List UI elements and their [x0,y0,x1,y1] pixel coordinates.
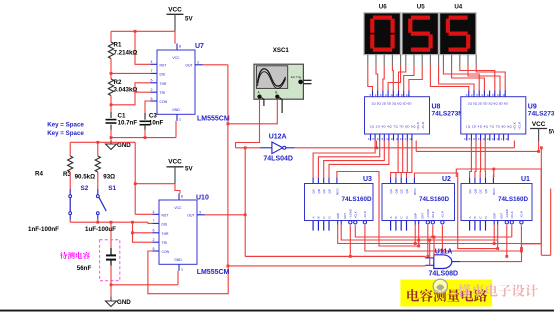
svg-text:ENP: ENP [414,213,418,219]
svg-text:74LS08D: 74LS08D [429,270,459,277]
svg-text:R4: R4 [35,170,43,177]
svg-text:U5: U5 [417,4,425,11]
svg-text:7: 7 [153,219,155,223]
svg-text:OUT: OUT [187,213,194,217]
svg-text:Ext Trig: Ext Trig [291,75,302,79]
svg-text:7.214kΩ: 7.214kΩ [114,50,138,57]
svg-text:>CLK: >CLK [354,211,358,218]
svg-text:19: 19 [496,137,500,141]
svg-text:VCC: VCC [168,158,182,165]
svg-text:56nF: 56nF [77,265,92,272]
svg-text:VCC: VCC [172,56,180,60]
svg-text:3: 3 [197,61,199,65]
svg-text:74LS04D: 74LS04D [263,155,293,162]
svg-text:TRI: TRI [162,241,168,245]
svg-text:QB: QB [473,189,477,193]
svg-text:~CLR: ~CLR [441,211,445,218]
svg-text:2: 2 [153,238,155,242]
svg-text:QA: QA [468,189,472,193]
svg-text:5: 5 [151,97,153,101]
svg-text:RST: RST [160,63,167,67]
svg-text:6: 6 [151,79,153,83]
svg-text:QB: QB [394,189,398,193]
svg-text:1Q 1D 4D 4Q 7Q 7D 8D 8Q: 1Q 1D 4D 4Q 7Q 7D 8D 8Q [466,125,513,129]
svg-text:U8: U8 [432,104,441,111]
svg-text:2Q 5Q 2D 5D 3Q 6Q 3D 6D: 2Q 5Q 2D 5D 3Q 6Q 3D 6D [372,102,413,106]
svg-text:THR: THR [160,82,168,86]
svg-text:~LOAD: ~LOAD [505,209,509,218]
svg-text:U7: U7 [195,43,204,50]
svg-text:74LS160D: 74LS160D [419,196,450,203]
svg-text:GND: GND [174,258,182,262]
svg-text:5V: 5V [549,129,554,136]
svg-text:U12A: U12A [269,133,287,140]
svg-text:U2: U2 [442,176,451,183]
svg-text:15: 15 [487,137,491,141]
svg-text:B: B [275,91,277,95]
svg-text:2Q 5Q 2D 5D 3Q 6Q 3D 6D: 2Q 5Q 2D 5D 3Q 6Q 3D 6D [468,102,509,106]
svg-text:B: B [473,216,477,218]
svg-text:~LOAD: ~LOAD [349,209,353,218]
svg-text:QA: QA [312,189,316,193]
svg-text:>CLK: >CLK [512,122,516,130]
svg-text:QA: QA [389,189,393,193]
svg-text:4: 4 [151,60,153,64]
svg-text:16: 16 [497,93,501,97]
svg-text:ENP: ENP [493,213,497,219]
svg-text:RCO: RCO [492,188,496,195]
svg-text:THR: THR [162,232,170,236]
svg-text:1: 1 [181,267,183,271]
svg-text:Key = Space: Key = Space [47,130,84,137]
svg-text:93Ω: 93Ω [103,174,115,181]
svg-text:U10: U10 [196,195,209,202]
svg-text:C1: C1 [118,113,126,120]
svg-text:DIS: DIS [160,72,166,76]
svg-text:LM555CM: LM555CM [197,116,230,123]
svg-text:74LS160D: 74LS160D [498,196,529,203]
svg-text:TRI: TRI [160,91,166,95]
svg-text:B: B [317,216,321,218]
svg-text:ENT: ENT [420,213,424,219]
svg-text:ENP: ENP [336,213,340,219]
svg-text:2: 2 [151,88,153,92]
svg-text:RST: RST [162,213,169,217]
svg-text:1: 1 [179,117,181,121]
svg-text:8: 8 [181,195,183,199]
svg-text:~LOAD: ~LOAD [426,209,430,218]
svg-text:ENT: ENT [343,213,347,219]
svg-text:Key = Space: Key = Space [47,121,84,128]
svg-text:U1: U1 [521,176,530,183]
svg-text:U3: U3 [363,176,372,183]
svg-text:LM555CM: LM555CM [197,269,230,276]
svg-text:~CLR: ~CLR [517,121,521,130]
svg-text:GND: GND [172,108,180,112]
svg-text:3.043kΩ: 3.043kΩ [114,87,138,94]
svg-text:19: 19 [502,93,506,97]
svg-text:15: 15 [391,137,395,141]
svg-text:74LS273N: 74LS273N [432,111,464,118]
svg-text:S1: S1 [108,185,116,192]
svg-text:RCO: RCO [335,188,339,195]
svg-text:XSC1: XSC1 [273,47,290,54]
svg-text:C3: C3 [149,113,157,120]
svg-text:1uF-100uF: 1uF-100uF [85,226,116,233]
svg-text:A: A [468,216,472,218]
svg-text:5V: 5V [185,16,193,23]
svg-text:3: 3 [199,211,201,215]
svg-text:S2: S2 [81,185,89,192]
svg-text:B: B [394,216,398,218]
svg-text:CON: CON [162,250,170,254]
svg-text:1Q 1D 4D 4Q 7Q 7D 8D 8Q: 1Q 1D 4D 4Q 7Q 7D 8D 8Q [370,125,417,129]
svg-text:VCC: VCC [174,206,182,210]
svg-text:A: A [389,216,393,218]
svg-text:15: 15 [492,93,496,97]
svg-text:U11A: U11A [435,249,453,256]
svg-text:QB: QB [317,189,321,193]
svg-text:16: 16 [492,137,496,141]
svg-text:12: 12 [487,93,491,97]
svg-text:11: 11 [505,137,508,141]
svg-text:16: 16 [401,93,405,97]
svg-text:5: 5 [153,247,155,251]
svg-text:VCC: VCC [168,7,182,14]
svg-text:~CLR: ~CLR [363,211,367,218]
svg-text:90.5kΩ: 90.5kΩ [75,174,95,181]
svg-text:OUT: OUT [185,63,192,67]
svg-text:A: A [311,216,315,218]
svg-text:7: 7 [151,69,153,73]
svg-text:6: 6 [153,229,155,233]
svg-text:~CLR: ~CLR [520,211,524,218]
svg-text:VCC: VCC [532,121,546,128]
svg-text:1nF-100nF: 1nF-100nF [28,226,59,233]
svg-text:15: 15 [396,93,400,97]
svg-text:12: 12 [390,93,394,97]
svg-text:>CLK: >CLK [431,211,435,218]
svg-text:R1: R1 [114,42,122,49]
svg-text:74LS273N: 74LS273N [528,111,554,118]
svg-text:RCO: RCO [413,188,417,195]
svg-text:CON: CON [160,100,168,104]
svg-text:U4: U4 [454,4,462,11]
svg-text:~CLR: ~CLR [421,121,425,130]
svg-text:GND: GND [117,142,131,149]
svg-text:U9: U9 [528,104,537,111]
svg-text:8: 8 [179,45,181,49]
svg-text:>CLK: >CLK [416,122,420,130]
svg-text:4: 4 [153,210,155,214]
svg-text:ENT: ENT [499,213,503,219]
svg-text:R2: R2 [114,79,122,86]
svg-text:DIS: DIS [162,222,168,226]
svg-text:10nF: 10nF [149,120,164,127]
svg-text:10.7nF: 10.7nF [118,120,138,127]
svg-text:U6: U6 [379,4,387,11]
svg-text:>CLK: >CLK [510,211,514,218]
svg-text:19: 19 [406,93,410,97]
svg-text:74LS160D: 74LS160D [342,196,373,203]
svg-text:5V: 5V [185,166,193,173]
svg-text:GND: GND [117,299,131,306]
